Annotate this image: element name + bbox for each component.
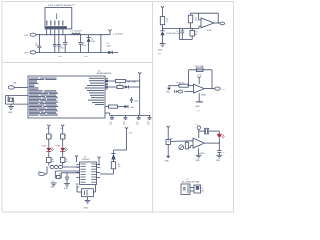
- svg-text:R7: R7: [118, 164, 120, 166]
- svg-text:+12V: +12V: [112, 33, 125, 35]
- svg-text:GND: GND: [165, 161, 170, 163]
- svg-text:LED2: LED2: [42, 146, 47, 148]
- svg-text:1N58: 1N58: [91, 41, 95, 43]
- svg-text:PZ: PZ: [187, 179, 189, 181]
- svg-text:R4: R4: [50, 135, 52, 137]
- svg-text:C2: C2: [82, 43, 84, 45]
- svg-text:GND: GND: [8, 112, 13, 114]
- svg-text:GND: GND: [195, 160, 200, 162]
- svg-text:DS1307: DS1307: [82, 159, 90, 161]
- svg-text:ATMEGA8535: ATMEGA8535: [97, 72, 112, 75]
- svg-text:R6: R6: [52, 159, 54, 161]
- svg-text:470u: 470u: [82, 45, 86, 47]
- svg-text:104: 104: [136, 124, 139, 126]
- svg-text:104: 104: [147, 124, 150, 126]
- svg-text:C3: C3: [110, 121, 112, 123]
- svg-text:1k: 1k: [64, 137, 66, 139]
- svg-text:R5: R5: [64, 135, 66, 137]
- svg-text:C6: C6: [147, 121, 149, 123]
- svg-text:U1: U1: [98, 70, 100, 72]
- svg-text:10k: 10k: [118, 166, 121, 168]
- svg-text:C5: C5: [136, 121, 138, 123]
- svg-text:104: 104: [35, 45, 38, 47]
- svg-text:TL084: TL084: [207, 30, 212, 32]
- svg-text:104: 104: [222, 152, 225, 154]
- svg-text:104: 104: [110, 124, 113, 126]
- svg-text:D2: D2: [107, 43, 109, 45]
- svg-text:C9: C9: [35, 43, 37, 45]
- svg-text:C4: C4: [123, 121, 125, 123]
- svg-text:104: 104: [176, 33, 179, 35]
- svg-text:104: 104: [123, 124, 126, 126]
- svg-text:1k: 1k: [50, 137, 52, 139]
- svg-text:GND: GND: [64, 188, 69, 190]
- svg-text:C2: C2: [52, 180, 54, 182]
- svg-text:R8 10k: R8 10k: [127, 81, 136, 83]
- svg-text:GND: GND: [158, 50, 163, 52]
- svg-text:X2: X2: [119, 84, 121, 86]
- svg-text:LM358: LM358: [200, 153, 205, 155]
- svg-text:C7: C7: [176, 31, 178, 33]
- svg-text:U2: U2: [84, 156, 86, 158]
- svg-text:10k: 10k: [52, 161, 55, 163]
- svg-text:32k: 32k: [59, 174, 62, 176]
- svg-text:LED3: LED3: [56, 146, 61, 148]
- svg-text:R7: R7: [65, 159, 67, 161]
- svg-text:GND: GND: [195, 106, 200, 108]
- svg-text:GND: GND: [84, 207, 89, 209]
- svg-text:R15 1k: R15 1k: [177, 83, 185, 85]
- svg-text:U3 LM2576HVT: U3 LM2576HVT: [48, 5, 76, 7]
- svg-text:GND: GND: [51, 187, 56, 189]
- svg-text:1N58: 1N58: [107, 46, 111, 48]
- svg-text:10k: 10k: [195, 20, 198, 22]
- svg-text:C1: C1: [60, 46, 62, 48]
- svg-text:1k: 1k: [166, 21, 168, 23]
- svg-text:10k: 10k: [65, 161, 68, 163]
- svg-text:B1: B1: [78, 187, 80, 189]
- svg-text:R9 10k: R9 10k: [195, 66, 204, 68]
- svg-text:GND: GND: [216, 160, 221, 162]
- svg-text:GND: GND: [166, 92, 171, 94]
- svg-text:1000u: 1000u: [60, 48, 65, 50]
- svg-text:L1 100uH: L1 100uH: [71, 31, 83, 33]
- svg-text:LM358: LM358: [201, 94, 206, 96]
- svg-text:1N4148: 1N4148: [166, 33, 176, 35]
- svg-text:R13: R13: [195, 32, 198, 34]
- svg-text:D1: D1: [91, 39, 93, 41]
- svg-text:10k: 10k: [195, 34, 198, 36]
